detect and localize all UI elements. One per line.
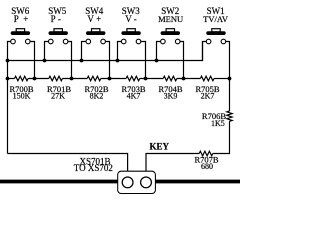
svg-text:KEY: KEY <box>149 142 169 152</box>
wire: ladder row segment <box>28 78 49 80</box>
wire: SW3 left contact to bus <box>118 42 122 61</box>
resistor R706B (1K5) <box>227 111 232 121</box>
svg-text:V -: V - <box>125 14 137 24</box>
resistor R700B (150K) <box>15 76 29 81</box>
svg-text:TO XS702: TO XS702 <box>74 163 113 173</box>
resistor R703B (4K7) <box>126 76 140 81</box>
wire: SW2 left contact to bus <box>157 42 161 61</box>
svg-text:P +: P + <box>14 14 29 24</box>
wire: resistor ladder row left end <box>8 78 15 80</box>
wire: SW2 right contact to ladder <box>180 42 184 79</box>
wire: SW1 right contact to ladder <box>226 42 230 79</box>
wire: KEY line to connector pin 2 <box>146 154 199 178</box>
svg-text:4K7: 4K7 <box>127 92 141 101</box>
switch SW2 pushbutton <box>161 29 180 44</box>
svg-text:TV/AV: TV/AV <box>203 14 229 24</box>
switch SW5 pushbutton <box>49 29 68 44</box>
wire: SW4 left contact to bus <box>82 42 87 61</box>
wire: ladder row segment <box>101 78 126 80</box>
svg-text:8K2: 8K2 <box>90 92 104 101</box>
svg-text:V +: V + <box>87 14 101 24</box>
wire: ladder row segment <box>214 78 230 80</box>
svg-text:P -: P - <box>51 14 61 24</box>
svg-text:27K: 27K <box>51 92 65 101</box>
wire: R706B to R707B <box>213 121 230 153</box>
wire: SW3 right contact to ladder <box>141 42 146 79</box>
wire: ladder common to connector pin 1 <box>8 154 128 178</box>
resistor R704B (3K9) <box>163 76 177 81</box>
switch SW6 pushbutton <box>11 29 30 44</box>
wire: SW5 right contact to ladder <box>68 42 72 79</box>
svg-text:680: 680 <box>201 162 213 171</box>
resistor R705B (2K7) <box>200 76 214 81</box>
wire: SW1 left contact to bus <box>203 42 207 61</box>
svg-text:1K5: 1K5 <box>211 119 225 128</box>
node: junctions on ladder row <box>6 77 232 81</box>
wire: ladder row segment <box>140 78 164 80</box>
switch SW4 pushbutton <box>86 29 105 44</box>
wire: common bus of switch left contacts <box>8 42 203 61</box>
node: junctions on common bus <box>6 59 159 63</box>
svg-text:150K: 150K <box>13 92 31 101</box>
wire: ladder row segment <box>62 78 87 80</box>
connector XS701B (to XS702) <box>118 171 156 193</box>
svg-text:2K7: 2K7 <box>201 92 215 101</box>
wire: SW6 left contact to bus <box>8 42 11 154</box>
wire: thick bottom bus to XS702 <box>0 180 240 184</box>
resistor R702B (8K2) <box>87 76 101 81</box>
wire: SW6 right contact to ladder <box>30 42 34 79</box>
svg-text:3K9: 3K9 <box>164 92 178 101</box>
wire: ladder row segment <box>177 78 201 80</box>
resistor R707B (680) <box>199 151 213 156</box>
wire: SW4 right contact to ladder <box>105 42 109 79</box>
svg-text:MENU: MENU <box>158 14 183 24</box>
switch SW3 pushbutton <box>121 29 140 44</box>
resistor R701B (27K) <box>49 76 63 81</box>
switch SW1 pushbutton <box>206 29 225 44</box>
wire: SW5 left contact to bus <box>45 42 49 61</box>
wire: ladder output down right side <box>229 79 231 112</box>
